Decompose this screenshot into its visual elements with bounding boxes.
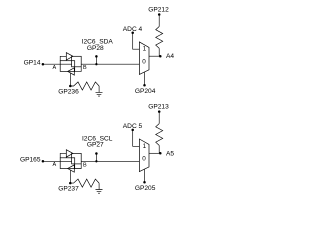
junction GP28 on wire — [95, 63, 97, 65]
mux U2 body — [139, 42, 149, 75]
wire R4 to A5 node — [158, 145, 160, 153]
mux U2 select pin wire — [143, 72, 145, 85]
svg-text:A: A — [52, 65, 56, 71]
buffer U3 B-to-A driver triangle — [68, 165, 75, 172]
buffer U1 B-to-A driver wire — [74, 67, 81, 72]
svg-text:GP205: GP205 — [135, 185, 156, 192]
pin dot GP205 — [143, 181, 146, 184]
wire GP14 to buffer A — [43, 63, 72, 65]
ground symbol (bottom) — [96, 190, 103, 194]
wire R1 to ground — [98, 86, 100, 92]
node dot A5 — [159, 152, 162, 155]
svg-text:A: A — [52, 162, 56, 168]
wire R3 to ground — [98, 183, 100, 189]
svg-text:GP212: GP212 — [148, 6, 169, 13]
wire ADC 4 to mux input 1 — [133, 33, 140, 49]
wire ADC 5 to mux input 1 — [133, 130, 140, 146]
wire B to mux input 0 — [81, 63, 139, 65]
resistor R4 (pullup) — [156, 124, 163, 146]
buffer U3 A-to-B driver triangle — [66, 150, 73, 157]
svg-text:GP204: GP204 — [135, 88, 156, 95]
svg-text:GP27: GP27 — [87, 142, 104, 149]
wire mux output to A4 — [149, 55, 160, 57]
svg-text:GP14: GP14 — [24, 60, 41, 67]
buffer U3 B-to-A driver wire — [74, 164, 81, 169]
svg-text:B: B — [83, 65, 87, 71]
svg-text:1: 1 — [143, 46, 147, 53]
buffer U1 A-side box — [60, 61, 74, 72]
resistor R3 (pulldown) — [70, 179, 99, 187]
svg-text:A5: A5 — [166, 150, 174, 157]
svg-text:GP237: GP237 — [58, 186, 79, 193]
buffer U1 A-to-B driver wire — [60, 56, 66, 60]
svg-text:GP236: GP236 — [58, 89, 79, 96]
pin dot GP213 — [158, 110, 161, 113]
wire GP28 stub — [95, 56, 97, 64]
buffer U3 enable pin wire — [70, 170, 72, 183]
pin dot GP28 — [95, 55, 98, 58]
pin dot GP204 — [143, 84, 146, 87]
wire B to mux input 0 (bottom) — [81, 160, 139, 162]
svg-text:GP28: GP28 — [87, 45, 104, 52]
node dot A4 — [159, 55, 162, 58]
pin dot ADC 4 — [131, 32, 134, 35]
wire GP27 stub — [95, 154, 97, 162]
pin dot GP165 — [42, 160, 45, 163]
wire GP165 to buffer A — [43, 160, 72, 162]
resistor R2 (pullup) — [156, 27, 163, 49]
wire GP212 to R2 — [158, 15, 160, 27]
buffer U3 A-side box — [60, 158, 74, 169]
pin dot GP212 — [158, 13, 161, 16]
svg-text:0: 0 — [142, 59, 146, 66]
svg-text:B: B — [83, 162, 87, 168]
resistor R1 (pulldown) — [70, 82, 99, 90]
pin dot ADC 5 — [131, 129, 134, 132]
svg-text:GP213: GP213 — [148, 103, 169, 110]
svg-text:0: 0 — [142, 156, 146, 163]
wire mux output to A5 — [149, 152, 160, 154]
buffer U1 enable pin wire — [70, 73, 72, 86]
ground symbol — [96, 92, 103, 96]
svg-text:1: 1 — [143, 143, 147, 150]
buffer U3 A-to-B driver wire — [60, 153, 66, 157]
pin dot GP27 — [95, 152, 98, 155]
buffer U1 A-to-B driver triangle — [66, 53, 73, 60]
junction dot GP236 — [69, 85, 72, 88]
svg-text:A4: A4 — [166, 53, 174, 60]
junction dot GP237 — [69, 182, 72, 185]
mux U4 select pin wire — [143, 169, 145, 182]
wire R2 to A4 node — [158, 48, 160, 56]
pin dot GP14 — [42, 63, 45, 66]
wire GP213 to R4 — [158, 112, 160, 124]
mux U4 body — [139, 139, 149, 172]
buffer U3 B-side box — [72, 153, 82, 164]
svg-text:GP165: GP165 — [20, 157, 41, 164]
buffer U1 B-to-A driver triangle — [68, 68, 75, 75]
junction GP27 on wire — [95, 160, 97, 162]
buffer U1 B-side box — [72, 56, 82, 67]
